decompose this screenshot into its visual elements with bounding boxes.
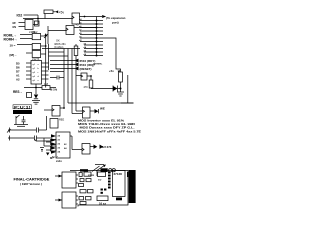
node junction triangle [44, 33, 47, 36]
wire reset rail [24, 87, 42, 89]
svg-text:LS273: LS273 [32, 58, 40, 61]
svg-text:MOS Duoxxx xxxx DFY ZP G.L.: MOS Duoxxx xxxx DFY ZP G.L. [80, 126, 135, 130]
node +5v LED [109, 69, 120, 73]
svg-text:64: 64 [64, 147, 67, 150]
wire from IC bottom [35, 84, 37, 94]
node WE label [100, 107, 105, 111]
svg-text:( 1987 Version ): ( 1987 Version ) [20, 182, 42, 186]
pcb resistors middle [80, 190, 93, 193]
junction dot [45, 45, 47, 47]
wire main top rail [23, 18, 72, 20]
node text TP [98, 178, 102, 182]
svg-text:50 1*: 50 1* [52, 156, 58, 159]
box U6 [50, 119, 58, 129]
svg-text:a: a [38, 64, 40, 66]
node input A2 [13, 25, 17, 29]
svg-text:NE2: NE2 [33, 31, 38, 34]
IC 27128 [113, 171, 126, 197]
gate U10 LED driver [76, 73, 91, 80]
flip-flop U2b [48, 26, 97, 35]
node tiny text U6 [59, 119, 64, 122]
svg-text:q2: q2 [33, 68, 36, 70]
node PLAY label 2 black [13, 110, 32, 114]
flip-flop U7 [76, 107, 95, 118]
gate U1a [19, 20, 39, 30]
svg-text:MOS Invertor xxxx EL 91%: MOS Invertor xxxx EL 91% [78, 118, 125, 122]
IC U8 left wires [44, 138, 51, 150]
pcb marks lower left [101, 189, 107, 194]
cartridge case black [127, 170, 136, 203]
wire vertical M4 [75, 44, 77, 46]
node title FINAL-CARTRIDGE [14, 176, 50, 181]
node green label [93, 62, 103, 66]
label 7400 [29, 30, 36, 34]
svg-text:RES→: RES→ [13, 90, 23, 94]
node RES label [13, 90, 23, 94]
trimmer circles [109, 169, 116, 172]
label 1k [44, 83, 49, 86]
svg-text:WE: WE [100, 107, 105, 111]
diode D3 [95, 109, 99, 113]
node IO2 label [17, 13, 23, 17]
wire pcb top row [70, 170, 97, 172]
pcb box1 [55, 172, 78, 188]
svg-text:TP: TP [98, 178, 102, 182]
pcb small parts right of box2 [79, 197, 91, 205]
svg-text:ROMH→: ROMH→ [4, 38, 18, 42]
pcb pin column [108, 172, 111, 189]
svg-text:MOS 1N914/xFF xFFx 4xFF 4xx 5.: MOS 1N914/xFF xFFx 4xFF 4xx 5.7E [78, 130, 141, 134]
node notes block [78, 118, 141, 133]
node text 273 [102, 145, 112, 149]
svg-text:c: c [38, 72, 40, 74]
resistor R2 vertical [74, 46, 78, 111]
svg-text:d: d [38, 76, 40, 78]
pcb connector small box [98, 172, 106, 177]
svg-text:d0: d0 [58, 136, 61, 138]
svg-text:1k8: 1k8 [44, 83, 49, 86]
gate U5 [44, 106, 64, 117]
svg-text:10 =: 10 = [10, 44, 16, 48]
node label 27128 [114, 172, 123, 176]
ground LED [117, 92, 124, 96]
svg-text:27128: 27128 [114, 172, 123, 176]
svg-text:d4: d4 [58, 151, 61, 154]
svg-text:d1: d1 [58, 140, 61, 142]
ground bar buttons [14, 125, 28, 127]
svg-text:+5v: +5v [109, 69, 114, 73]
resistor R4 [42, 86, 56, 90]
wire bottom of LED block [121, 102, 134, 104]
svg-text:REE: REE [59, 119, 64, 122]
flip-flop U2a [72, 13, 103, 24]
diode D2 [34, 95, 38, 99]
svg-text:q1: q1 [33, 64, 36, 66]
node text bottom pcb [99, 202, 106, 206]
junction dot [37, 18, 39, 20]
arrow row RESET [50, 67, 79, 71]
svg-text:(C-Mos): (C-Mos) [54, 45, 64, 49]
svg-text:d2: d2 [58, 144, 61, 146]
label in IC [32, 58, 40, 82]
svg-text:16 xx: 16 xx [99, 202, 106, 206]
svg-text:b: b [38, 68, 40, 70]
bus rung labels [79, 18, 87, 56]
svg-text:(RESET): (RESET) [80, 67, 92, 71]
wire LED feed [101, 38, 121, 72]
cap cluster left of U8 [35, 139, 57, 151]
gate U3a [32, 34, 44, 40]
cap row C2 [7, 128, 47, 133]
svg-text:e: e [38, 80, 40, 82]
pcb box2 [55, 192, 78, 208]
gate U1b small [35, 21, 40, 26]
IC U4 LS273 [31, 61, 42, 85]
node +5 tick [76, 23, 80, 27]
node text under U8 [50, 156, 62, 163]
node input A1 [13, 21, 17, 25]
diode arrows out [94, 145, 104, 149]
svg-text:q5: q5 [33, 80, 36, 82]
wire vertical M3 [71, 49, 73, 114]
wire arrow to expansion label [102, 15, 105, 17]
wire long horiz [68, 102, 134, 104]
wire vertical M1 [63, 49, 65, 109]
junction dot [35, 87, 37, 89]
arrow row 6510 RDY [50, 59, 79, 63]
arrow row 6510 IRQ [50, 63, 79, 67]
svg-text:1/2 273: 1/2 273 [102, 145, 112, 149]
node ROMH label [4, 38, 18, 42]
svg-text:q4: q4 [33, 76, 36, 78]
resistor R3 LED [119, 72, 123, 92]
svg-text:M 1%: M 1% [50, 88, 58, 92]
node pin labels D [16, 61, 20, 81]
svg-text:FINAL-CARTRIDGE: FINAL-CARTRIDGE [14, 176, 50, 181]
cap C1 small [27, 93, 32, 98]
IC U4 left pins [26, 63, 31, 79]
label 470 [84, 86, 89, 89]
cap row C3 [8, 136, 44, 141]
node blob under 27128 [116, 198, 122, 201]
gate U3c [26, 51, 46, 58]
svg-text:q3: q3 [33, 72, 36, 74]
pcb small parts right of box1 [79, 172, 92, 187]
cap C4 polarized [40, 148, 44, 153]
wire diag into pcb [95, 165, 106, 172]
svg-text:port): port) [112, 20, 119, 24]
junction dot [63, 107, 65, 109]
IC U8 interior [58, 136, 68, 154]
pcb bottom box [97, 196, 108, 201]
svg-text:MOS 74HC-Oxxx xxxx EL 99D: MOS 74HC-Oxxx xxxx EL 99D [78, 122, 135, 126]
bus junction dots [96, 20, 98, 57]
svg-text:xx1x: xx1x [56, 159, 62, 163]
node label M [10, 53, 18, 57]
wire long vertical V1 [45, 36, 47, 87]
svg-text:xx xx: xx xx [88, 174, 95, 177]
wire left verticals to IC2 [44, 116, 47, 146]
component RV1 dark box [101, 168, 108, 172]
switch S1 [16, 115, 26, 125]
node text RESET [80, 67, 92, 71]
wire bus rail top [42, 48, 80, 50]
svg-text:d3: d3 [58, 148, 61, 150]
bus ladder rungs [80, 21, 103, 56]
wire ROMH [20, 38, 32, 40]
svg-text:A2: A2 [16, 77, 20, 81]
node +5V top [55, 10, 64, 14]
svg-text:IO2: IO2 [17, 13, 23, 17]
IC U8 RAM [56, 132, 70, 158]
node text IRQ [80, 63, 95, 67]
wire IC to verticals [49, 52, 69, 56]
node tiny text under row [88, 174, 95, 177]
gate U3b [32, 44, 46, 50]
node PLAY label 1 [14, 105, 31, 109]
wire U8 to osc [70, 136, 82, 150]
junction dot LED [120, 88, 122, 90]
osc U9 [82, 144, 94, 155]
svg-text:62: 62 [64, 144, 67, 146]
svg-text:[M]→: [M]→ [10, 53, 18, 57]
wire IO2 to gate [24, 15, 39, 25]
node text RDY [80, 59, 96, 63]
node label 10 [10, 44, 16, 48]
node title version [20, 182, 42, 186]
IC U8 left pin arrows [51, 134, 56, 154]
node expansion port text [106, 16, 126, 24]
wire ROML [20, 34, 32, 36]
LED D1 [113, 86, 121, 92]
wire vertical feed [44, 26, 48, 44]
node ROML label [4, 33, 17, 37]
svg-text:I/S: I/S [13, 25, 17, 29]
resistor R1 pull-up [44, 10, 56, 19]
label LS above gate [33, 31, 38, 34]
ground D2 [32, 101, 40, 105]
wire vertical M2 [67, 49, 69, 104]
resistor R5 470 [89, 80, 113, 89]
wire V2 vertical [48, 44, 50, 70]
svg-text:+5v: +5v [59, 10, 65, 14]
junction dot [90, 75, 92, 77]
IC U4 right pins [42, 63, 49, 79]
pcb outline right section [78, 171, 128, 207]
node text 50 [52, 156, 58, 159]
junction dot [84, 16, 86, 18]
wire bus vertical [96, 17, 98, 56]
wire into gate U3b [17, 44, 32, 46]
wire cap row mid [50, 72, 64, 80]
wire right vertical [127, 75, 129, 103]
wire M3 bend [72, 113, 83, 115]
node triangle down [46, 153, 49, 156]
node text MR [50, 88, 58, 92]
svg-text:470: 470 [84, 86, 89, 89]
switch S2 diagonal [92, 166, 100, 172]
node note text MOS [54, 39, 66, 50]
resistor R6 on row [80, 169, 88, 171]
